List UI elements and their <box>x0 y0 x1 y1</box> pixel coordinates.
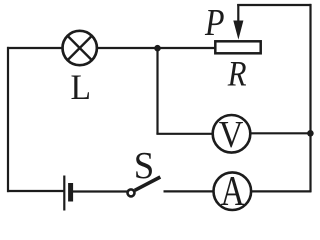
svg-text:A: A <box>221 169 246 215</box>
wire: left vertical rail <box>7 47 9 192</box>
wire: lamp to rheostat <box>98 47 216 49</box>
wire: ammeter to right rail <box>252 190 312 192</box>
switch S <box>128 177 161 196</box>
svg-text:P: P <box>204 2 224 44</box>
svg-text:R: R <box>227 54 247 94</box>
wire: junction down to voltmeter branch <box>156 48 158 134</box>
voltmeter V <box>213 115 251 153</box>
svg-text:S: S <box>134 145 155 187</box>
node: junction dot right <box>307 130 314 137</box>
node: junction dot top <box>154 45 161 52</box>
rheostat R body <box>215 41 260 53</box>
svg-text:L: L <box>70 67 91 107</box>
slider arrow P <box>233 4 243 40</box>
battery cell <box>64 176 70 211</box>
wire: top-left horizontal from left rail to lamp <box>7 47 62 49</box>
wire: bottom from left rail to battery <box>7 190 64 192</box>
wire: right vertical rail <box>309 4 311 192</box>
wire: horizontal into voltmeter <box>156 133 212 135</box>
wire: voltmeter to right rail <box>251 132 311 134</box>
wire: switch to ammeter <box>164 190 214 192</box>
ammeter A <box>214 172 252 210</box>
lamp L <box>62 31 96 65</box>
wire: top-right horizontal <box>237 4 311 6</box>
wire: battery to switch <box>73 190 127 192</box>
svg-text:V: V <box>219 114 244 156</box>
